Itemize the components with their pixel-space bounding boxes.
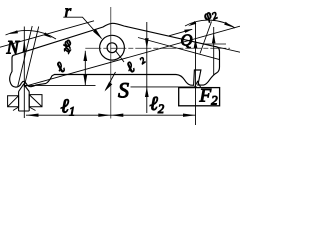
axis line left (tilted position) bbox=[0, 21, 94, 47]
right contact level line bbox=[131, 86, 198, 88]
phi2 arc right arrowhead bbox=[224, 22, 232, 27]
l2 left arrowhead bbox=[111, 114, 124, 117]
hub inner circle bbox=[107, 43, 117, 53]
l2' extension vertical line bbox=[146, 22, 148, 113]
left hatch square left bbox=[8, 96, 19, 107]
left contact steep line 1 bbox=[18, 26, 33, 87]
svg-text:N: N bbox=[6, 39, 21, 59]
l2' up arrowhead at bottom bbox=[145, 87, 149, 97]
right knife point bbox=[194, 81, 201, 87]
left contact level line bbox=[24, 84, 96, 86]
l1 right arrowhead bbox=[98, 114, 111, 117]
left support knife bbox=[19, 84, 30, 91]
left contact steep line 2 bbox=[24, 27, 39, 87]
r leader arrowhead bbox=[93, 29, 103, 40]
N force vertical line bbox=[23, 27, 25, 87]
phi1 arc left arrowhead bbox=[9, 30, 18, 34]
hub horizontal center line bbox=[85, 47, 230, 49]
right support box bbox=[179, 88, 220, 106]
axis line right descending bbox=[138, 38, 220, 60]
S leader arrow bbox=[106, 72, 116, 90]
right steep line through contact bbox=[200, 22, 212, 54]
l2 right arrowhead bbox=[183, 114, 196, 117]
l2' down arrowhead at top bbox=[145, 38, 149, 48]
left support pedestal bbox=[19, 92, 30, 112]
Q force arrow bbox=[169, 29, 192, 36]
phi2 arc left arrowhead bbox=[188, 21, 196, 26]
second vertical line right bbox=[213, 27, 215, 75]
up arrowhead on support center line bbox=[194, 38, 198, 48]
l1' down arrowhead bbox=[83, 75, 87, 85]
phi2 arc bbox=[185, 20, 235, 28]
left ground strokes bbox=[13, 107, 36, 111]
dimension line l1 bbox=[26, 114, 111, 116]
short horizontal reference right bbox=[204, 43, 227, 45]
svg-text:S: S bbox=[118, 77, 129, 102]
svg-text:Q: Q bbox=[181, 31, 193, 50]
left hatch square right bbox=[29, 95, 42, 107]
l1' up arrowhead bbox=[83, 51, 87, 61]
l1 left arrowhead bbox=[26, 114, 39, 117]
N arrowhead bbox=[23, 40, 26, 53]
dimension line l2 bbox=[111, 114, 196, 116]
top edge thin extension right bbox=[215, 46, 241, 52]
left support center line bbox=[23, 87, 25, 119]
phi1 arc right arrowhead bbox=[44, 32, 52, 38]
phi1 arc bbox=[6, 30, 57, 39]
r leader shelf bbox=[63, 17, 101, 38]
hub outer circle bbox=[100, 35, 125, 60]
hub leader to l2' label bbox=[116, 51, 124, 62]
beam outline bbox=[10, 23, 220, 87]
tilted axis through contact points tangent to hub bbox=[24, 26, 240, 86]
hub vertical center line bbox=[110, 7, 112, 119]
right support center vertical line bbox=[195, 22, 197, 126]
up arrowhead on second vertical bbox=[212, 33, 216, 43]
l1' dimension line bbox=[84, 51, 86, 86]
